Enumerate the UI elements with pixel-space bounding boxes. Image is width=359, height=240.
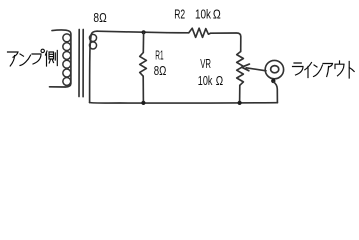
svg-text:8Ω: 8Ω [154, 63, 167, 78]
label アンプ側 (amplifier side), drawn as vector strokes [8, 49, 58, 66]
wire: R2 to top-right corner, down to VR [211, 33, 241, 52]
transformer core [79, 30, 83, 97]
glyph 側 [46, 51, 58, 67]
wire: bottom rail [90, 102, 278, 105]
VR wiper arrow line [246, 68, 266, 71]
svg-text:Ω: Ω [216, 73, 224, 88]
resistor R2 [189, 28, 211, 37]
glyph プ [32, 49, 44, 64]
wire: R1 bottom lead [142, 76, 144, 103]
junction node: top rail / R1 [142, 30, 146, 34]
svg-text:10k: 10k [195, 6, 211, 21]
glyph ト [349, 62, 354, 79]
label ラインアウト (line out), drawn as vector strokes [293, 61, 355, 78]
glyph ア [323, 64, 333, 77]
junction node: bottom rail / VR [238, 101, 242, 105]
jack J1 inner circle [271, 66, 279, 73]
glyph イ [305, 63, 312, 78]
glyph ウ [335, 61, 344, 76]
potentiometer VR (resistive element) [237, 52, 244, 86]
glyph ア [8, 52, 19, 66]
svg-text:R2: R2 [174, 6, 185, 21]
wire: VR bottom lead [239, 85, 241, 103]
svg-text:8Ω: 8Ω [93, 10, 107, 25]
wire: R1 top lead [142, 32, 144, 52]
glyph ン [314, 65, 323, 77]
glyph ラ [293, 63, 304, 75]
svg-text:10k: 10k [198, 73, 213, 88]
VR wiper arrowhead [242, 64, 250, 71]
wire: top rail from secondary to R2 [97, 31, 189, 33]
svg-text:R1: R1 [155, 47, 163, 62]
jack J1 outer circle [265, 60, 283, 78]
transformer T1 secondary winding [90, 31, 98, 102]
junction node: bottom rail / R1 [141, 101, 145, 105]
jack sleeve junction dot [271, 79, 275, 83]
transformer T1 primary winding [50, 30, 71, 87]
glyph ン [20, 54, 31, 66]
resistor R1 [140, 53, 147, 77]
svg-text:Ω: Ω [213, 7, 221, 22]
svg-text:VR: VR [200, 56, 211, 71]
wire: jack sleeve to bottom rail [273, 82, 277, 103]
